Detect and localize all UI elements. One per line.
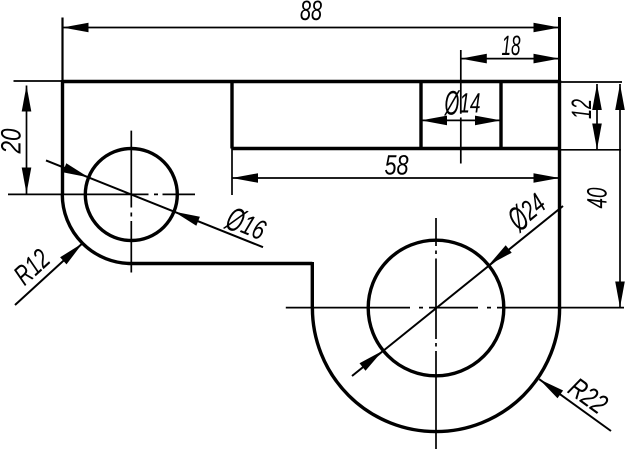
dimension 20 <box>1 86 31 194</box>
hole Ø24 circle <box>368 240 504 376</box>
dimension 40 <box>587 84 625 308</box>
slot left edge <box>230 82 233 149</box>
dimension 12 <box>571 84 601 150</box>
dimension 88 <box>63 1 560 33</box>
part outline top edge <box>63 80 560 83</box>
extension line 88 left <box>61 18 63 81</box>
centerline Ø14 <box>460 50 462 164</box>
fillet R12 arc <box>62 195 131 264</box>
hole Ø14 right edge <box>499 82 502 149</box>
leader R22 <box>539 376 611 431</box>
centerline R22 horizontal <box>286 307 624 309</box>
extension line top left <box>14 80 63 82</box>
hole Ø14 left edge <box>419 82 422 149</box>
centerline Ø16 horizontal with 20 extension <box>8 193 195 195</box>
part outline left edge <box>61 80 64 195</box>
part outline step edge <box>311 262 314 308</box>
dimension Ø14 <box>421 90 501 125</box>
extension line 88 right <box>558 17 561 80</box>
part outline bottom edge <box>131 262 312 265</box>
extension line 58 left <box>231 149 233 196</box>
centerline R22 vertical <box>435 218 437 449</box>
slot bottom edge <box>232 147 560 150</box>
dimension 58 <box>232 155 560 183</box>
extension line top right <box>561 81 622 83</box>
hole Ø16 circle <box>85 149 177 241</box>
R22 boss arc <box>312 308 559 432</box>
leader R12 <box>12 243 83 305</box>
part outline right edge <box>558 80 561 309</box>
leader Ø24 <box>352 190 563 376</box>
centerline Ø16 vertical <box>130 131 132 273</box>
dimension 18 <box>461 36 560 64</box>
leader Ø16 <box>46 160 269 247</box>
extension line 12 bottom <box>561 149 621 151</box>
